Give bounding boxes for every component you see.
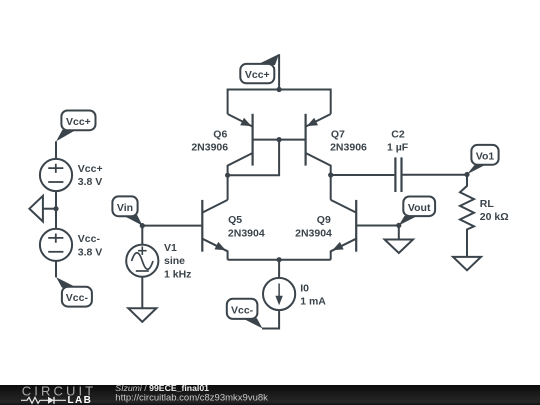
wire Q5 base (142, 225, 202, 227)
svg-text:C2: C2 (391, 128, 405, 140)
wire emitter rail (228, 259, 331, 261)
svg-text:2N3906: 2N3906 (191, 141, 228, 153)
svg-text:Vcc-: Vcc- (66, 292, 89, 304)
node label Vcc- (left bottom) (56, 277, 92, 306)
svg-text:sine: sine (164, 255, 185, 267)
node Vcc+ (top) junction (277, 87, 282, 92)
svg-text:Vcc+: Vcc+ (245, 69, 270, 81)
node label Vout (399, 197, 435, 226)
svg-text:2N3904: 2N3904 (228, 227, 265, 239)
wire Q6/Q7 base tie (253, 139, 306, 141)
svg-text:2N3904: 2N3904 (295, 227, 332, 239)
svg-text:http://circuitlab.com/c8z93mkx: http://circuitlab.com/c8z93mkx9vu8k (115, 393, 268, 404)
node label Vo1 (467, 145, 499, 174)
wire base-to-collector tie (228, 140, 280, 176)
wire Vcc+ rail (228, 90, 331, 115)
wire Q9 base (356, 225, 399, 227)
svg-text:Q7: Q7 (331, 128, 345, 140)
svg-text:Q6: Q6 (213, 128, 227, 140)
svg-text:Q9: Q9 (317, 214, 331, 226)
svg-text:Vo1: Vo1 (476, 150, 495, 162)
svg-text:Vout: Vout (408, 202, 431, 214)
node Q6 collector junction (225, 173, 230, 178)
ground (below Vout) (385, 240, 413, 254)
voltage source Vcc+ 3.8V (40, 141, 103, 228)
transistor Q6 2N3906 (191, 114, 252, 175)
svg-text:Vcc+: Vcc+ (78, 163, 103, 175)
logo symbol (resistor + diode) (21, 397, 66, 404)
svg-text:Vcc-: Vcc- (231, 304, 254, 316)
svg-text:Vcc-: Vcc- (78, 233, 101, 245)
svg-text:Q5: Q5 (228, 214, 242, 226)
node label Vin (112, 196, 142, 225)
wire C2 to Vo1 (403, 174, 468, 176)
svg-text:SIzumi / 99ECE_final01: SIzumi / 99ECE_final01 (115, 383, 209, 393)
node emitter junction (277, 257, 282, 262)
node label Vcc- (at I0) (227, 299, 263, 329)
footer bar (0, 383, 540, 405)
node Vin junction (140, 223, 145, 228)
wire Q7 collector to Q9 collector (330, 175, 332, 200)
node mid-supply junction (53, 206, 58, 211)
wire Q6 collector to Q5 collector (227, 175, 229, 200)
svg-text:3.8 V: 3.8 V (78, 176, 103, 188)
svg-text:V1: V1 (164, 242, 177, 254)
svg-text:20 kΩ: 20 kΩ (480, 211, 509, 223)
svg-text:RL: RL (480, 198, 495, 210)
svg-text:Vin: Vin (117, 202, 133, 214)
current source I0 1mA (262, 260, 326, 329)
node Q7 collector junction (328, 172, 333, 177)
voltage source V1 sine 1kHz (126, 226, 191, 309)
ground (below V1) (128, 308, 156, 322)
resistor RL 20k (460, 175, 509, 257)
voltage source Vcc- 3.8V (40, 229, 102, 278)
node label Vcc+ (top) (240, 54, 279, 83)
svg-text:2N3906: 2N3906 (330, 141, 367, 153)
svg-text:3.8 V: 3.8 V (78, 246, 103, 258)
transistor Q7 2N3906 (306, 114, 367, 175)
ground (left, rotated) (29, 196, 43, 222)
svg-text:I0: I0 (300, 283, 309, 295)
node label Vcc+ (left) (56, 111, 95, 142)
wire Vcc+ top stub (278, 54, 280, 89)
wire Vout to ground (398, 225, 400, 239)
wire Q7 collector to C2 (331, 174, 395, 176)
wire ground stub (43, 208, 56, 210)
node base junction (277, 137, 282, 142)
svg-text:Vcc+: Vcc+ (66, 116, 91, 128)
node Vout junction (396, 223, 401, 228)
ground (below RL) (453, 257, 481, 270)
svg-text:1 kHz: 1 kHz (164, 268, 191, 280)
svg-text:LAB: LAB (68, 395, 93, 405)
svg-text:1 µF: 1 µF (387, 141, 409, 153)
node Vo1 junction (464, 172, 469, 177)
capacitor C2 (387, 128, 409, 192)
transistor Q5 2N3904 (202, 200, 265, 260)
transistor Q9 2N3904 (295, 200, 356, 260)
svg-text:1 mA: 1 mA (300, 296, 326, 308)
